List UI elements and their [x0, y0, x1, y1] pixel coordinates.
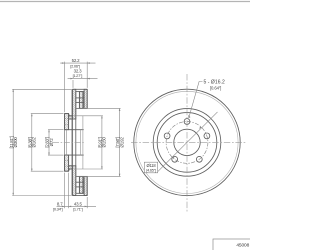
hat interior wall silhouette: [82, 116, 84, 169]
hat flange left face: [64, 114, 66, 172]
flange right face: [68, 114, 70, 130]
bolt hole left: [164, 133, 170, 139]
vent tick bottom 3: [76, 186, 84, 188]
vent tick bottom 1: [76, 175, 84, 177]
inboard plate inner face upper: [83, 92, 85, 109]
bore silhouette through hole: [80, 130, 82, 155]
outboard plate outer face: [72, 89, 74, 195]
band top edge: [73, 88, 88, 90]
arrows 52.2: [62, 62, 65, 64]
flange bottom edge and barrel step bottom: [65, 169, 73, 171]
label Ø300: [9, 136, 18, 148]
svg-text:45008: 45008: [236, 243, 249, 249]
ext line right x=87.2: [86, 62, 88, 88]
vane edge right lower: [82, 176, 84, 193]
Ø300 dim line: [12, 89, 14, 195]
dim line 32.3: [68, 78, 98, 80]
Ø72 ext bottom: [48, 154, 64, 156]
svg-text:8.7: 8.7: [57, 201, 63, 206]
hat barrel wall top hatched: [69, 116, 73, 119]
center vane hatched upper: [79, 92, 83, 109]
band bottom edge: [73, 195, 88, 197]
Ø192 dim line: [119, 108, 121, 176]
outboard plate hatched lower: [73, 166, 76, 196]
Ø300 ext top: [12, 88, 71, 90]
ext x=87.2 down: [86, 197, 88, 208]
Ø150 ext top: [74, 115, 103, 117]
Ø192 ext bottom: [76, 175, 121, 177]
OD chamfer circle: [136, 91, 238, 193]
Ø150 dim line: [101, 116, 103, 169]
vane edge left upper: [78, 92, 80, 109]
vent tick top 4: [76, 107, 84, 109]
svg-text:[1.27"]: [1.27"]: [73, 73, 83, 78]
hat barrel wall bottom hatched: [69, 166, 73, 169]
PCD arrow lower-left: [172, 156, 175, 158]
inboard plate outer face lower: [86, 176, 88, 195]
section axis centerline: [53, 141, 84, 143]
vent tick top 3: [76, 101, 84, 103]
barrel inner surface top: [69, 118, 73, 120]
disc band outer-face double edge: [71, 89, 73, 195]
inboard plate inner face lower: [83, 176, 85, 193]
outer circle: [134, 89, 240, 195]
hat flange hatched lower: [65, 155, 69, 171]
flange bore chamfer line: [66, 130, 68, 155]
braking inner edge circle: [153, 109, 221, 177]
center vane hatched lower: [79, 176, 83, 193]
inboard plate hatched upper: [84, 89, 87, 108]
Ø150 ext bottom: [74, 168, 103, 170]
inboard plate outer face upper: [86, 89, 88, 108]
svg-text:Ø192: Ø192: [119, 137, 124, 148]
dim line bottom: [57, 205, 97, 207]
stud hole hidden lines: [65, 118, 69, 120]
barrel inner surface bottom: [69, 165, 73, 167]
svg-text:Ø162: Ø162: [32, 137, 37, 148]
label Ø72: [45, 137, 54, 147]
ext x=68.6 down: [68, 173, 70, 209]
bolt hole right: [204, 133, 210, 139]
arrows 32.3: [70, 78, 73, 80]
outboard plate hatched upper: [73, 89, 76, 119]
vent tick bottom 2: [76, 181, 84, 183]
vent tick bottom 4: [76, 192, 84, 194]
label Ø150: [97, 137, 106, 148]
svg-text:43.5: 43.5: [74, 201, 83, 206]
bolt hole bottom-right: [196, 156, 202, 162]
Ø72 ext top: [48, 129, 64, 131]
vent tick top 1: [76, 91, 84, 93]
bolt hole bottom-left: [172, 156, 178, 162]
ext line 32.3 left: [72, 80, 74, 88]
vane edge left lower: [78, 176, 80, 193]
hat flange hatched upper: [65, 114, 69, 130]
label Ø162: [27, 137, 36, 148]
horizontal centerline: [131, 141, 245, 143]
vane edge right upper: [82, 92, 84, 109]
ext x=64.5 down: [64, 173, 66, 209]
Ø300 ext bottom: [12, 195, 71, 197]
center hole: [174, 129, 200, 155]
dim line 52.2: [60, 62, 95, 64]
svg-text:Ø150: Ø150: [102, 137, 107, 148]
svg-text:52.2: 52.2: [72, 58, 81, 63]
svg-text:[4.65"]: [4.65"]: [146, 168, 156, 173]
top border line: [0, 1, 250, 3]
inboard plate hatched lower: [84, 176, 87, 195]
center hole lower edge: [65, 154, 84, 156]
flange bore wall left: [64, 130, 66, 155]
hat circle: [157, 113, 217, 173]
PCD boxed label: [144, 162, 157, 173]
outboard plate inner face: [75, 92, 77, 194]
bolt hole leader: [189, 82, 203, 119]
label Ø192: [115, 137, 124, 148]
Ø192 ext top: [76, 107, 121, 109]
Ø162 dim line: [31, 114, 33, 172]
PCD dashed circle: [166, 121, 208, 163]
svg-text:Ø300: Ø300: [13, 137, 18, 148]
bolt hole top: [184, 119, 190, 125]
Ø162 ext bottom: [31, 170, 64, 172]
Ø162 ext top: [31, 113, 64, 115]
center hole upper edge: [65, 129, 84, 131]
svg-text:[1.71"]: [1.71"]: [73, 207, 83, 212]
Ø72 dim line: [48, 130, 50, 155]
PCD leader line: [158, 112, 218, 172]
vent tick top 2: [76, 97, 84, 99]
svg-text:Ø72: Ø72: [49, 138, 54, 147]
ext line left x=64.5: [64, 62, 66, 113]
flange top edge and barrel step top: [65, 114, 73, 116]
vertical centerline: [186, 74, 188, 212]
svg-text:[0.34"]: [0.34"]: [53, 207, 63, 212]
svg-text:[0.64"]: [0.64"]: [210, 85, 221, 90]
PCD arrow upper-right: [199, 126, 202, 128]
